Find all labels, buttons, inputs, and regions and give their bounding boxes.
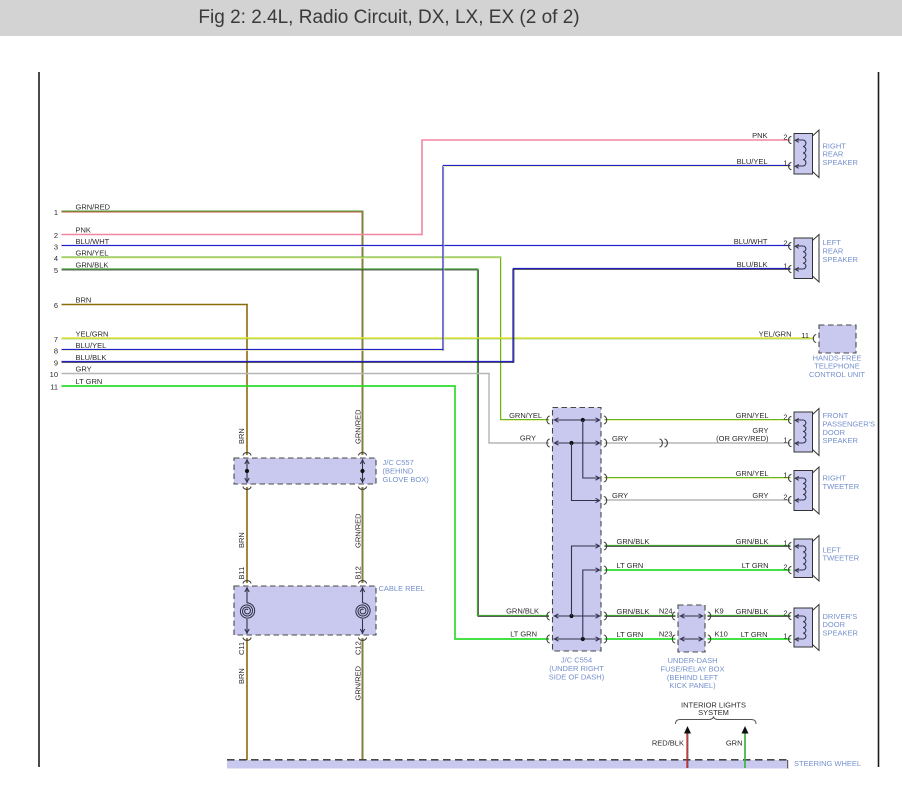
svg-text:TWEETER: TWEETER	[823, 482, 860, 491]
wire GRN/RED vertical cable reel to steering wheel	[361, 638, 363, 768]
wire 5 GRN/BLK into J/C C554	[478, 615, 550, 617]
svg-text:GRN/YEL: GRN/YEL	[736, 411, 769, 420]
svg-text:GRY: GRY	[520, 434, 536, 443]
svg-text:LT GRN: LT GRN	[617, 630, 644, 639]
svg-text:6: 6	[54, 301, 58, 310]
svg-text:GRN/BLK: GRN/BLK	[736, 537, 769, 546]
svg-text:GRN/BLK: GRN/BLK	[617, 607, 650, 616]
svg-text:1: 1	[783, 435, 787, 444]
svg-text:K10: K10	[715, 629, 728, 638]
hands-free telephone control unit	[819, 325, 856, 353]
svg-text:1: 1	[783, 261, 787, 270]
wire GRN arrow to interior lights	[744, 733, 746, 768]
wire 10 GRY vertical down	[488, 374, 490, 444]
cable reel	[234, 586, 376, 635]
svg-text:2: 2	[783, 412, 787, 421]
svg-text:STEERING WHEEL: STEERING WHEEL	[794, 759, 861, 768]
svg-text:SPEAKER: SPEAKER	[823, 255, 859, 264]
wire GRN/BLK C554 to left tweeter pin 1	[605, 545, 791, 547]
svg-text:1: 1	[783, 158, 787, 167]
svg-text:BRN: BRN	[237, 532, 246, 548]
svg-text:PNK: PNK	[76, 226, 91, 235]
svg-text:8: 8	[54, 347, 58, 356]
left border	[38, 72, 40, 767]
wire 6 BRN horizontal	[62, 304, 248, 306]
svg-text:BLU/WHT: BLU/WHT	[76, 237, 110, 246]
svg-text:LT GRN: LT GRN	[742, 561, 769, 570]
svg-text:2: 2	[783, 608, 787, 617]
svg-text:2: 2	[783, 238, 787, 247]
speaker cone	[813, 130, 820, 178]
wire 8 BLU/YEL vertical up	[442, 166, 444, 351]
svg-text:1: 1	[54, 208, 58, 217]
svg-text:SPEAKER: SPEAKER	[823, 436, 859, 445]
svg-text:BLU/YEL: BLU/YEL	[737, 157, 768, 166]
speaker cone	[813, 536, 820, 582]
svg-text:2: 2	[783, 132, 787, 141]
svg-text:GRN/BLK: GRN/BLK	[76, 261, 109, 270]
wire GRN/BLK C554 to fuse box N24	[605, 615, 676, 617]
svg-text:GRN/RED: GRN/RED	[354, 409, 363, 444]
speaker cone	[813, 409, 820, 456]
svg-text:YEL/GRN: YEL/GRN	[759, 330, 792, 339]
svg-text:GRY: GRY	[76, 365, 92, 374]
wire GRN/BLK fuse box K9 to driver door speaker pin 2	[708, 615, 791, 617]
svg-text:2: 2	[54, 231, 58, 240]
brace	[676, 717, 757, 725]
wire 9 BLU/BLK horizontal	[62, 361, 515, 363]
wire 4 GRN/YEL vertical down	[500, 258, 502, 420]
svg-text:LT GRN: LT GRN	[617, 561, 644, 570]
wire 3 BLU/WHT to left rear speaker pin 2	[62, 245, 791, 247]
svg-text:B11: B11	[237, 567, 246, 580]
svg-text:7: 7	[54, 335, 58, 344]
svg-text:SYSTEM: SYSTEM	[698, 708, 729, 717]
svg-text:TWEETER: TWEETER	[823, 554, 860, 563]
svg-text:K9: K9	[715, 606, 724, 615]
svg-text:C11: C11	[237, 642, 246, 655]
junction connector J/C C554	[553, 408, 602, 652]
wire LT GRN C554 to fuse box N23	[605, 638, 676, 640]
svg-text:LT GRN: LT GRN	[76, 377, 103, 386]
svg-text:11: 11	[50, 383, 58, 392]
svg-text:GRN/BLK: GRN/BLK	[506, 606, 539, 615]
svg-text:10: 10	[50, 370, 58, 379]
svg-text:BRN: BRN	[76, 296, 92, 305]
svg-text:GRN/RED: GRN/RED	[354, 665, 363, 700]
under-dash fuse/relay box	[678, 605, 705, 652]
svg-text:5: 5	[54, 266, 58, 275]
svg-text:GRY: GRY	[612, 434, 628, 443]
svg-text:GRN/RED: GRN/RED	[76, 203, 111, 212]
svg-text:GRN/YEL: GRN/YEL	[736, 469, 769, 478]
svg-text:2: 2	[783, 492, 787, 501]
title bar	[0, 0, 902, 36]
svg-text:GRN: GRN	[726, 738, 743, 747]
svg-text:1: 1	[783, 538, 787, 547]
right border	[878, 72, 880, 767]
wire 9 BLU/BLK vertical up	[512, 269, 514, 363]
wire GRN/YEL C554 to right tweeter pin 1	[605, 477, 791, 479]
svg-text:Fig 2: 2.4L, Radio Circuit, DX: Fig 2: 2.4L, Radio Circuit, DX, LX, EX (…	[198, 7, 579, 28]
inline connector on GRY wire	[660, 439, 663, 447]
wire 5 GRN/BLK vertical down	[477, 270, 479, 616]
steering wheel	[227, 760, 788, 769]
speaker cone	[813, 605, 820, 651]
svg-text:GRN/YEL: GRN/YEL	[509, 411, 542, 420]
wire 8 BLU/YEL to right rear speaker pin 1	[443, 165, 791, 167]
svg-text:CONTROL UNIT: CONTROL UNIT	[809, 370, 865, 379]
wire 6 BRN vertical C557 to cable reel	[246, 487, 248, 583]
svg-text:GRY: GRY	[612, 491, 628, 500]
wire GRN/YEL C554 to front passenger door speaker pin 2	[605, 419, 791, 421]
wire 10 GRY horizontal	[62, 373, 490, 375]
svg-text:BLU/YEL: BLU/YEL	[76, 341, 107, 350]
svg-text:BLU/BLK: BLU/BLK	[737, 260, 768, 269]
svg-text:GRN/BLK: GRN/BLK	[617, 537, 650, 546]
wire GRY C554 to right tweeter pin 2	[605, 499, 791, 501]
junction connector J/C C557	[234, 458, 376, 484]
svg-text:RED/BLK: RED/BLK	[652, 738, 684, 747]
svg-text:B12: B12	[354, 566, 363, 579]
svg-text:PNK: PNK	[752, 131, 767, 140]
svg-text:N24: N24	[659, 606, 673, 615]
svg-text:BRN: BRN	[237, 668, 246, 684]
svg-text:LT GRN: LT GRN	[510, 629, 537, 638]
svg-text:(OR GRY/RED): (OR GRY/RED)	[716, 434, 769, 443]
wire 2 PNK horizontal	[62, 234, 422, 236]
svg-text:11: 11	[801, 331, 809, 340]
wire 11 LT GRN horizontal	[62, 385, 456, 387]
svg-text:GRN/RED: GRN/RED	[354, 513, 363, 548]
wire 6 BRN vertical to J/C C557	[246, 305, 248, 456]
svg-text:SIDE OF DASH): SIDE OF DASH)	[549, 672, 605, 681]
wire 10 GRY into J/C C554	[488, 442, 549, 444]
svg-text:SPEAKER: SPEAKER	[823, 629, 859, 638]
svg-text:3: 3	[54, 243, 58, 252]
wire 9 BLU/BLK to left rear speaker pin 1	[513, 268, 791, 270]
svg-text:C12: C12	[354, 641, 363, 655]
speaker cone	[813, 467, 820, 514]
svg-text:GRN/YEL: GRN/YEL	[76, 249, 109, 258]
wire 7 YEL/GRN to hands-free unit pin 11	[62, 337, 814, 339]
wire 8 BLU/YEL horizontal	[62, 349, 445, 351]
speaker cone	[813, 235, 820, 283]
C554 edge connector arcs	[547, 416, 550, 424]
wire LT GRN fuse box K10 to driver door speaker pin 1	[708, 638, 791, 640]
wire 5 GRN/BLK horizontal	[62, 268, 479, 270]
wire 2 PNK vertical up	[421, 140, 423, 236]
svg-text:BLU/BLK: BLU/BLK	[76, 353, 107, 362]
svg-text:N23: N23	[659, 629, 673, 638]
svg-text:9: 9	[54, 359, 58, 368]
svg-text:BRN: BRN	[237, 428, 246, 444]
svg-text:4: 4	[54, 254, 58, 263]
svg-text:CABLE REEL: CABLE REEL	[379, 584, 425, 593]
wire 1 GRN/RED vertical to J/C C557	[361, 212, 363, 455]
wire 4 GRN/YEL into J/C C554	[501, 419, 550, 421]
svg-text:1: 1	[783, 631, 787, 640]
svg-text:SPEAKER: SPEAKER	[823, 158, 859, 167]
wire 11 LT GRN vertical down	[454, 386, 456, 639]
svg-text:1: 1	[783, 470, 787, 479]
svg-text:KICK PANEL): KICK PANEL)	[669, 681, 716, 690]
wire 6 BRN vertical cable reel to steering wheel	[246, 638, 248, 768]
wire 11 LT GRN into J/C C554	[454, 638, 549, 640]
svg-text:GRY: GRY	[752, 491, 768, 500]
wire LT GRN C554 to left tweeter pin 2	[605, 569, 791, 571]
wire RED/BLK arrow to interior lights	[686, 733, 688, 768]
svg-text:GRN/BLK: GRN/BLK	[736, 607, 769, 616]
wire 4 GRN/YEL horizontal	[62, 256, 502, 258]
svg-text:LT GRN: LT GRN	[741, 630, 768, 639]
wire GRN/RED vertical C557 to cable reel	[361, 487, 363, 583]
wire 2 PNK to right rear speaker pin 2	[422, 139, 791, 141]
wire GRY C554 to front passenger door speaker pin 1	[605, 442, 791, 444]
svg-text:BLU/WHT: BLU/WHT	[734, 237, 768, 246]
svg-text:GLOVE BOX): GLOVE BOX)	[383, 475, 430, 484]
wire 1 GRN/RED horizontal	[62, 210, 364, 212]
svg-text:2: 2	[783, 562, 787, 571]
